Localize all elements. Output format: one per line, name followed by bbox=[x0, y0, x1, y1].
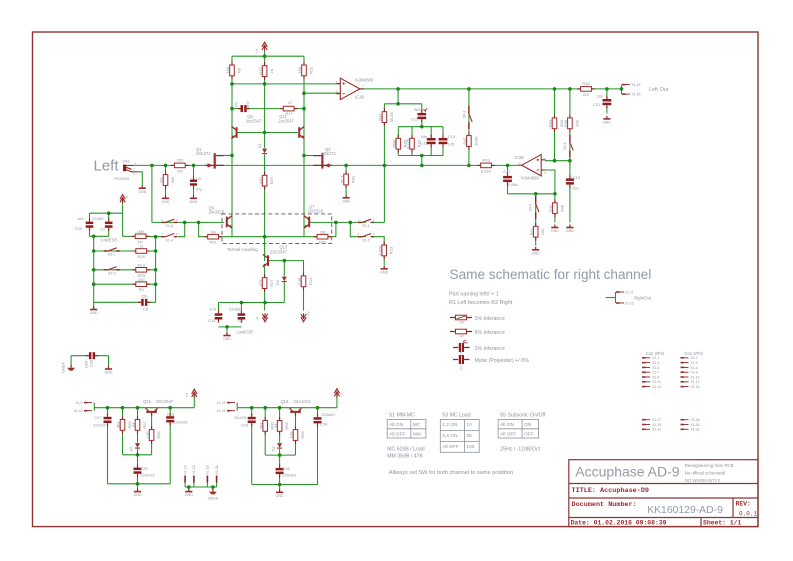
op-amp IC2B NJM4580 bbox=[518, 155, 546, 176]
svg-text:100: 100 bbox=[289, 431, 294, 438]
svg-text:R41: R41 bbox=[548, 119, 553, 127]
wire RIAA top rail bbox=[398, 126, 443, 128]
wire C33 gnd drop bbox=[108, 356, 110, 367]
resistor R45 bbox=[577, 87, 595, 92]
svg-text:220: 220 bbox=[177, 158, 184, 163]
svg-text:X1-30: X1-30 bbox=[691, 423, 700, 427]
ground bus bbox=[90, 307, 98, 316]
wire gnd bus bbox=[93, 236, 95, 308]
svg-text:C31: C31 bbox=[208, 318, 216, 323]
svg-text:R57: R57 bbox=[142, 420, 147, 428]
wire cap bottom row2 bbox=[219, 326, 242, 328]
wire S6-4 R51 chain bbox=[535, 194, 537, 246]
svg-text:22u6S: 22u6S bbox=[92, 216, 104, 221]
svg-text:NJM4580: NJM4580 bbox=[355, 77, 374, 82]
capacitor C31 bbox=[215, 310, 223, 323]
pin X1-31 bbox=[642, 428, 650, 430]
svg-text:-V: -V bbox=[125, 195, 129, 199]
svg-text:47p: 47p bbox=[196, 187, 203, 192]
wire emitter row right bbox=[265, 236, 336, 238]
svg-text:X1-15: X1-15 bbox=[216, 401, 225, 405]
svg-text:X1-14: X1-14 bbox=[691, 385, 700, 389]
svg-text:1,2 ON: 1,2 ON bbox=[442, 422, 458, 428]
svg-text:X1-28: X1-28 bbox=[691, 418, 700, 422]
resistor R41 bbox=[548, 115, 564, 133]
svg-text:C17: C17 bbox=[503, 169, 511, 174]
svg-text:R11: R11 bbox=[308, 66, 313, 74]
wire C31 row bbox=[219, 302, 285, 304]
capacitor C28 bbox=[248, 414, 256, 427]
svg-text:1n5: 1n5 bbox=[77, 216, 84, 221]
svg-text:X1-3: X1-3 bbox=[652, 361, 659, 365]
capacitor C30 bbox=[86, 218, 94, 231]
wire center rail bbox=[264, 56, 266, 261]
svg-text:REV:: REV: bbox=[736, 501, 751, 508]
svg-text:C27: C27 bbox=[94, 415, 102, 420]
svg-text:2.1K: 2.1K bbox=[297, 277, 302, 286]
svg-text:30: 30 bbox=[466, 433, 472, 439]
supply +V bbox=[262, 42, 267, 51]
wire reg2 bottom rail bbox=[252, 484, 318, 486]
junction bbox=[92, 54, 623, 488]
pin X1-13 bbox=[642, 386, 650, 388]
svg-text:X1-10: X1-10 bbox=[73, 409, 82, 413]
svg-text:R1: R1 bbox=[159, 177, 164, 183]
svg-text:R13: R13 bbox=[308, 277, 313, 285]
resistor R29 bbox=[314, 234, 332, 239]
svg-text:S3-3: S3-3 bbox=[108, 271, 116, 275]
capacitor C8 15n bbox=[138, 299, 151, 306]
resistor R5 bbox=[171, 163, 189, 168]
ground R23 bbox=[380, 266, 388, 275]
svg-text:MM 36dB / 47K: MM 36dB / 47K bbox=[387, 453, 423, 459]
svg-text:33: 33 bbox=[131, 422, 136, 427]
svg-text:R51: R51 bbox=[529, 227, 534, 235]
wire R29 riser bbox=[335, 222, 337, 236]
svg-text:3k3: 3k3 bbox=[116, 421, 121, 428]
svg-text:10n: 10n bbox=[597, 94, 604, 99]
svg-text:X1-10: X1-10 bbox=[691, 375, 700, 379]
wire R1 drop bbox=[165, 165, 167, 195]
svg-text:0.68u: 0.68u bbox=[508, 182, 518, 187]
pin X1-2 bbox=[681, 357, 689, 359]
transistor Q11 2sc2547 bbox=[298, 126, 304, 138]
svg-text:C3: C3 bbox=[238, 318, 244, 323]
svg-text:LowESR: LowESR bbox=[237, 329, 253, 334]
svg-text:1% tolerance: 1% tolerance bbox=[475, 316, 505, 322]
svg-text:2SK371: 2SK371 bbox=[196, 151, 211, 156]
wire rightout join bbox=[615, 292, 617, 303]
svg-text:86n: 86n bbox=[414, 107, 421, 112]
wire Q5 base row bbox=[152, 221, 224, 223]
wire pinX1-17 stub bbox=[184, 483, 186, 488]
svg-text:X1-18: X1-18 bbox=[192, 465, 196, 474]
wire R33 stem bbox=[411, 127, 413, 156]
svg-text:1n5: 1n5 bbox=[209, 307, 216, 312]
svg-text:100K: 100K bbox=[473, 136, 478, 146]
wire C2 stem bbox=[108, 213, 110, 236]
svg-text:220: 220 bbox=[583, 92, 590, 97]
svg-text:GND: GND bbox=[138, 190, 146, 194]
ground reg right bbox=[276, 489, 284, 498]
svg-text:Left Out: Left Out bbox=[649, 87, 669, 93]
svg-text:X1-31: X1-31 bbox=[652, 428, 661, 432]
resistor R27 bbox=[258, 274, 274, 292]
resistor R21 bbox=[204, 234, 222, 239]
svg-text:X1-6: X1-6 bbox=[691, 366, 698, 370]
svg-text:C5: C5 bbox=[196, 176, 202, 181]
resistor R23 bbox=[377, 242, 393, 260]
svg-text:All OFF: All OFF bbox=[500, 431, 516, 437]
diode D2 bbox=[277, 443, 283, 449]
pin X1-30 bbox=[681, 424, 689, 426]
svg-text:C2: C2 bbox=[100, 226, 106, 231]
wire C27 chain bbox=[107, 408, 109, 484]
svg-text:All OFF: All OFF bbox=[389, 431, 405, 437]
svg-text:S3 MC Load: S3 MC Load bbox=[442, 413, 471, 419]
svg-text:X1-32: X1-32 bbox=[691, 428, 700, 432]
transistor Q16 2SA1015 bbox=[290, 408, 302, 416]
wire C17 chain bbox=[507, 165, 509, 193]
svg-text:Allways set SW for both channe: Allways set SW for both channel to same … bbox=[389, 470, 513, 476]
pin X1-32 bbox=[681, 428, 689, 430]
pin X1-23 bbox=[206, 476, 208, 483]
svg-text:C26: C26 bbox=[282, 466, 290, 471]
transistor Q7 2sc3329 bbox=[304, 216, 310, 228]
svg-text:R3: R3 bbox=[139, 287, 145, 292]
svg-text:GNDA: GNDA bbox=[208, 496, 219, 500]
ground C31 bbox=[223, 333, 231, 342]
wire Q9-Q11 base row bbox=[238, 132, 298, 134]
pin X1-29 bbox=[642, 424, 650, 426]
wire R60 chain bbox=[264, 408, 266, 455]
wire drop to S1-6 bbox=[151, 165, 153, 222]
svg-text:25Hz / -12dB/Oct: 25Hz / -12dB/Oct bbox=[500, 447, 540, 453]
wire X1-15 join bbox=[236, 403, 238, 411]
wire gnd stub bbox=[226, 327, 228, 334]
wire C28 chain bbox=[251, 408, 253, 485]
svg-text:R47: R47 bbox=[462, 137, 467, 145]
wire -in drop bbox=[545, 170, 555, 194]
wire jack gnd elbow bbox=[137, 172, 142, 185]
svg-text:Mylar (Polyester) +/-5%: Mylar (Polyester) +/-5% bbox=[475, 358, 530, 364]
svg-text:X1-25: X1-25 bbox=[632, 83, 641, 87]
svg-text:15n: 15n bbox=[141, 294, 148, 299]
svg-text:C8: C8 bbox=[143, 306, 149, 311]
switch S6-1 bbox=[570, 135, 574, 158]
wire C15 spine bbox=[421, 104, 423, 127]
pin X1-26 bbox=[622, 93, 630, 95]
legend mylar capacitor bbox=[453, 355, 470, 364]
supply -V regulator bbox=[334, 389, 339, 398]
wire RIAA drop to main bbox=[421, 156, 423, 166]
svg-text:X1-24: X1-24 bbox=[215, 465, 219, 474]
svg-text:2SC2547: 2SC2547 bbox=[156, 399, 174, 404]
ground C21 bbox=[603, 116, 611, 125]
svg-text:-V: -V bbox=[256, 316, 260, 320]
resistor R43 bbox=[548, 199, 564, 217]
pin X1-9 bbox=[84, 402, 92, 404]
svg-text:C24: C24 bbox=[320, 421, 328, 426]
svg-text:U$1: U$1 bbox=[123, 159, 130, 163]
pin X1-5 bbox=[642, 366, 650, 368]
switch S6-3 bbox=[469, 106, 473, 129]
capacitor C9 4n7 bbox=[237, 105, 250, 112]
svg-text:470: 470 bbox=[258, 177, 263, 184]
resistor R19 bbox=[258, 172, 274, 190]
svg-text:160: 160 bbox=[297, 66, 302, 73]
wire left rail bbox=[231, 56, 233, 237]
svg-text:GND: GND bbox=[276, 494, 284, 498]
wire main row left bbox=[134, 164, 206, 166]
wire R31 drop bbox=[345, 165, 347, 195]
svg-text:X1-13: X1-13 bbox=[652, 385, 661, 389]
resistor R9 bbox=[225, 62, 241, 80]
svg-text:Left: Left bbox=[94, 157, 120, 174]
pin X1-11 bbox=[642, 381, 650, 383]
svg-text:CY: CY bbox=[460, 364, 464, 369]
svg-text:4.02K: 4.02K bbox=[377, 245, 382, 256]
svg-text:MM: MM bbox=[413, 431, 421, 437]
wire R43 chain bbox=[554, 194, 556, 223]
svg-text:S5 Subsonic On/Off: S5 Subsonic On/Off bbox=[500, 413, 546, 419]
svg-text:X1-8: X1-8 bbox=[691, 371, 698, 375]
svg-text:+V: +V bbox=[185, 392, 189, 397]
svg-text:4n7: 4n7 bbox=[245, 100, 250, 107]
capacitor C26 bbox=[276, 465, 284, 478]
svg-text:18n: 18n bbox=[421, 134, 428, 139]
svg-text:C33: C33 bbox=[88, 359, 93, 367]
wire +V reg riser bbox=[193, 394, 195, 408]
svg-text:220u6S: 220u6S bbox=[282, 473, 296, 478]
wire rightout stub bbox=[606, 297, 616, 299]
resistor R15 bbox=[258, 62, 274, 80]
svg-text:R55: R55 bbox=[156, 431, 161, 439]
wire op-amp -in row bbox=[304, 92, 340, 94]
svg-text:3k3: 3k3 bbox=[258, 422, 263, 429]
svg-text:IC1B: IC1B bbox=[355, 95, 365, 100]
wire gnda stub bbox=[212, 487, 214, 489]
wire Q1 drain bbox=[217, 154, 233, 156]
transistor Q5 2sc3329 bbox=[226, 216, 232, 228]
pin X1-17 bbox=[184, 476, 186, 483]
svg-text:X1-4: X1-4 bbox=[691, 361, 698, 365]
ground C19 bbox=[566, 225, 574, 234]
wire S1-1 to R37 spine bbox=[374, 221, 384, 223]
svg-text:2sc2547: 2sc2547 bbox=[246, 119, 262, 124]
wire C33 row bbox=[71, 355, 108, 357]
svg-text:0.0.1: 0.0.1 bbox=[739, 510, 757, 517]
switch S6-4 bbox=[536, 196, 540, 219]
svg-text:R31: R31 bbox=[351, 175, 356, 183]
svg-text:GND: GND bbox=[551, 229, 559, 233]
wire pinX1-23 stub bbox=[206, 483, 208, 488]
resistor R1 bbox=[159, 171, 175, 189]
ground R43 bbox=[551, 225, 559, 234]
transistor Q15 2SC2547 bbox=[146, 408, 158, 416]
legend 1% capacitor bbox=[453, 340, 470, 352]
wire C11 stem bbox=[430, 127, 432, 156]
svg-text:D5: D5 bbox=[129, 446, 134, 452]
resistor R25 bbox=[132, 249, 150, 254]
capacitor C29 bbox=[166, 413, 174, 426]
svg-text:2K: 2K bbox=[269, 68, 274, 73]
resistor R3 bbox=[132, 282, 150, 287]
pin X1-12 bbox=[616, 302, 624, 304]
svg-text:X1-26: X1-26 bbox=[632, 93, 641, 97]
svg-text:Accuphase AD-9: Accuphase AD-9 bbox=[575, 464, 679, 480]
resistor R11 bbox=[297, 62, 313, 80]
svg-text:45.2: 45.2 bbox=[137, 262, 146, 267]
svg-text:X1-9: X1-9 bbox=[652, 375, 659, 379]
svg-text:47: 47 bbox=[288, 100, 293, 105]
title block bbox=[569, 460, 758, 527]
ground jack bbox=[138, 185, 146, 194]
svg-text:X1-1: X1-1 bbox=[652, 356, 659, 360]
wire +V reg rail bbox=[94, 407, 194, 409]
wire pinX1-18 stub bbox=[193, 483, 195, 488]
wire C21 chain bbox=[606, 89, 608, 114]
svg-text:68K: 68K bbox=[559, 204, 564, 211]
svg-text:Document Number:: Document Number: bbox=[572, 501, 637, 509]
svg-text:R43: R43 bbox=[548, 204, 553, 212]
svg-text:S3-1: S3-1 bbox=[108, 253, 116, 257]
svg-text:2sc3329: 2sc3329 bbox=[308, 209, 324, 214]
svg-text:D3: D3 bbox=[275, 279, 280, 285]
svg-text:X1-16: X1-16 bbox=[216, 409, 225, 413]
wire Q7 base row bbox=[310, 221, 366, 223]
svg-text:S1 MM-MC: S1 MM-MC bbox=[389, 413, 415, 419]
svg-text:S6-1: S6-1 bbox=[563, 142, 567, 150]
svg-text:PSG01S: PSG01S bbox=[115, 177, 130, 181]
wire R7 row bbox=[123, 235, 163, 237]
svg-text:R21: R21 bbox=[209, 240, 217, 245]
svg-text:NO WARRANTY!!: NO WARRANTY!! bbox=[685, 478, 720, 483]
capacitor C24 bbox=[314, 414, 322, 427]
wire main row center bbox=[216, 164, 322, 166]
svg-text:R45: R45 bbox=[582, 81, 590, 86]
svg-text:IC2B: IC2B bbox=[515, 155, 525, 160]
svg-text:45.4K: 45.4K bbox=[389, 112, 394, 123]
diode D5 bbox=[135, 443, 141, 449]
wire S6-3 R47 spine bbox=[468, 89, 470, 165]
supply -V Q13 bbox=[262, 313, 267, 322]
wire feedback T row bbox=[384, 103, 421, 105]
connector U1 PSG01S bbox=[123, 165, 137, 172]
wire reg bottom rail bbox=[108, 483, 171, 485]
switch S3-1 bbox=[104, 248, 120, 252]
switch S3-3 bbox=[104, 267, 120, 271]
svg-text:C19: C19 bbox=[573, 175, 581, 180]
capacitor C15 bbox=[417, 110, 426, 123]
pin X1-24 bbox=[216, 476, 218, 483]
wire out connector join bbox=[621, 85, 623, 95]
op-amp IC1B NJM4580 bbox=[336, 78, 364, 99]
svg-text:R27: R27 bbox=[269, 279, 274, 287]
svg-text:R39: R39 bbox=[482, 158, 490, 163]
svg-text:16K: 16K bbox=[574, 119, 579, 126]
capacitor C25 bbox=[134, 464, 142, 477]
svg-text:GND: GND bbox=[532, 251, 540, 255]
svg-text:KK160129-AD-9: KK160129-AD-9 bbox=[647, 505, 723, 516]
svg-text:Same schematic for right chann: Same schematic for right channel bbox=[450, 267, 652, 282]
supply +V regulator bbox=[192, 389, 197, 398]
pin X1-16 bbox=[227, 410, 235, 412]
svg-text:S1-4: S1-4 bbox=[166, 238, 174, 242]
pin X1-8 bbox=[681, 371, 689, 373]
pin X1-28 bbox=[681, 419, 689, 421]
capacitor C13 bbox=[439, 135, 448, 148]
wire R23 chain bbox=[374, 237, 384, 266]
wire C13 stem bbox=[442, 127, 444, 156]
svg-text:2SA1015: 2SA1015 bbox=[294, 399, 312, 404]
svg-text:R5: R5 bbox=[177, 168, 183, 173]
transistor Q1 2SK371 bbox=[205, 153, 224, 168]
wire R58 D2 chain bbox=[279, 408, 281, 490]
svg-text:S1-1: S1-1 bbox=[362, 224, 370, 228]
svg-text:S1-2: S1-2 bbox=[362, 238, 370, 242]
resistor R39 bbox=[477, 163, 495, 168]
wire C8 row bbox=[94, 301, 156, 303]
supply -V input bbox=[120, 195, 125, 204]
supply +V Q13 bbox=[301, 313, 306, 322]
svg-text:GND: GND bbox=[190, 200, 198, 204]
svg-text:S1-6: S1-6 bbox=[166, 224, 174, 228]
ground GNDA header bbox=[209, 489, 217, 495]
wire cap bottom row bbox=[90, 235, 109, 237]
svg-text:GND: GND bbox=[566, 229, 574, 233]
svg-text:220u/25: 220u/25 bbox=[173, 419, 188, 424]
svg-text:No official schematid: No official schematid bbox=[685, 471, 726, 476]
svg-text:10: 10 bbox=[466, 422, 472, 428]
resistor R7 bbox=[132, 234, 150, 239]
resistor R59 bbox=[116, 416, 132, 434]
svg-text:Reengineering from PCB: Reengineering from PCB bbox=[685, 463, 734, 468]
svg-text:C29: C29 bbox=[167, 412, 175, 417]
wire output row bbox=[360, 88, 622, 90]
ground header bbox=[185, 489, 193, 498]
svg-text:+V: +V bbox=[307, 311, 311, 316]
wire D3 chain bbox=[283, 261, 285, 303]
wire C3 stem bbox=[240, 303, 242, 311]
svg-text:R58: R58 bbox=[284, 421, 289, 429]
svg-text:NJM4580: NJM4580 bbox=[521, 176, 540, 181]
svg-text:X1-9: X1-9 bbox=[75, 401, 82, 405]
svg-text:95.3: 95.3 bbox=[339, 175, 344, 184]
ground R51 bbox=[532, 247, 540, 256]
capacitor C11 bbox=[427, 135, 436, 148]
svg-text:X1-12: X1-12 bbox=[691, 380, 700, 384]
capacitor C27 bbox=[104, 414, 112, 427]
wire select bus bbox=[155, 237, 157, 303]
svg-text:X1-12: X1-12 bbox=[625, 301, 634, 305]
svg-text:R49: R49 bbox=[563, 119, 568, 127]
wire S3 row1 bbox=[94, 250, 156, 252]
wire pin header rail bbox=[185, 486, 217, 488]
svg-text:GND: GND bbox=[380, 270, 388, 274]
wire +V stub bbox=[264, 51, 266, 57]
wire S1-2 feed bbox=[350, 222, 366, 236]
svg-text:S6-4: S6-4 bbox=[529, 204, 533, 212]
svg-text:Sheet: 1/1: Sheet: 1/1 bbox=[703, 520, 742, 527]
resistor R17 bbox=[280, 106, 298, 111]
resistor R37 bbox=[378, 108, 394, 126]
wire RIAA bottom rail bbox=[398, 155, 443, 157]
capacitor C21 bbox=[603, 96, 612, 109]
svg-text:MC 62dB / Load: MC 62dB / Load bbox=[387, 447, 425, 453]
svg-text:C25: C25 bbox=[140, 466, 148, 471]
svg-text:C15: C15 bbox=[411, 116, 419, 121]
